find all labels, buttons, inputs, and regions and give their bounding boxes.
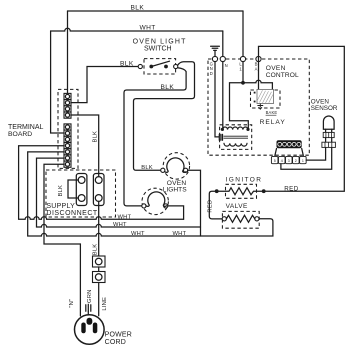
wire L1 jog to transformer primary right — [230, 83, 249, 128]
fuse block F1 — [76, 174, 87, 206]
terminal GND — [212, 56, 217, 61]
svg-text:WHT: WHT — [113, 222, 127, 228]
svg-text:DISCONNECT: DISCONNECT — [46, 210, 98, 217]
svg-text:5: 5 — [274, 159, 276, 163]
wire ignitor junction to valve (RED) — [209, 191, 222, 219]
terminal L1 — [240, 56, 245, 61]
oven control dashed box — [208, 59, 309, 155]
ignitor dashed box — [226, 184, 257, 198]
wire N to transformer primary — [222, 62, 224, 128]
wire WHT top bus with hop over BLK — [51, 28, 223, 133]
terminal board TB dashed box — [58, 89, 78, 168]
fuse block F2 — [93, 174, 104, 206]
svg-text:BLK: BLK — [120, 60, 134, 67]
wire switch feed from terminal board — [71, 67, 138, 103]
svg-text:1: 1 — [302, 159, 304, 163]
ignitor resistor element — [217, 188, 264, 195]
svg-text:A: A — [255, 67, 258, 72]
transformer primary winding — [222, 127, 248, 130]
top lamp filament — [165, 158, 186, 172]
svg-text:SENSOR: SENSOR — [311, 105, 338, 112]
svg-text:BAKE: BAKE — [266, 110, 278, 115]
svg-text:LIGHTS: LIGHTS — [163, 186, 187, 193]
svg-text:TERMINAL: TERMINAL — [8, 124, 44, 131]
svg-text:D: D — [210, 71, 213, 76]
wire WHT return 2: terminal 6 to lamp junction, hops 2 verticals — [37, 158, 201, 227]
wire L1 drop to terminal — [242, 11, 244, 56]
svg-text:2: 2 — [295, 159, 297, 163]
line connector block 2 — [93, 272, 106, 283]
wire BLK vertical drop to terminal board — [67, 11, 69, 93]
wire BA to bake relay coil — [258, 62, 260, 90]
wire BLK top bus (L1 feed) — [68, 10, 244, 12]
switch S1 left contact — [138, 64, 142, 68]
svg-text:RELAY: RELAY — [260, 119, 286, 126]
valve resistor element — [226, 215, 254, 222]
svg-text:4: 4 — [281, 159, 283, 163]
wire WHT return 3: terminal 5 to valve, hops 2 verticals — [28, 152, 273, 236]
wire terminal board to BLK drop (power line) — [71, 115, 99, 177]
GRN ground mark — [86, 304, 91, 311]
wire LINE to power cord — [98, 283, 100, 316]
svg-text:WHT: WHT — [173, 231, 187, 237]
terminal BA — [256, 56, 261, 61]
svg-text:BOARD: BOARD — [8, 131, 32, 138]
transformer core — [224, 136, 249, 138]
switch S1 poles and blade — [149, 65, 153, 69]
svg-text:BLK: BLK — [161, 84, 175, 91]
transformer primary dots — [221, 128, 224, 131]
transformer laminations — [219, 134, 222, 140]
oven sensor leads upper — [326, 129, 332, 132]
svg-text:BLK: BLK — [131, 5, 145, 12]
plug connector P1 numbered strip — [271, 156, 306, 163]
svg-text:POWER: POWER — [105, 331, 132, 338]
valve right terminal — [255, 217, 259, 221]
ignitor junction dot left — [215, 189, 219, 193]
wire N: terminal 7 to power cord — [44, 164, 80, 316]
oven sensor bulb — [323, 116, 334, 129]
svg-text:CONTROL: CONTROL — [266, 72, 299, 79]
junction dot L1 — [241, 81, 245, 85]
oven sensor connector band 1 — [323, 132, 334, 137]
wire N drop to terminal — [222, 31, 224, 56]
wire plug to sensor right lead — [281, 147, 332, 169]
line connector block 1 — [93, 256, 106, 267]
terminal board lower strip (7 terminals) — [64, 124, 71, 167]
oven sensor connector band 2 — [322, 142, 336, 147]
bake relay armature symbol — [257, 104, 263, 110]
svg-text:3: 3 — [288, 159, 290, 163]
wire switch branch A to top oven light — [134, 62, 195, 171]
ground symbol at GND terminal — [211, 46, 220, 56]
svg-text:OVEN: OVEN — [266, 65, 286, 72]
svg-text:BLK: BLK — [93, 244, 99, 256]
supply disconnect dashed box — [46, 170, 116, 217]
oven lights: top lamp dashed circle — [163, 153, 189, 179]
power cord right prong — [93, 323, 98, 334]
svg-text:WHT: WHT — [118, 214, 132, 220]
wire plug to sensor left lead — [306, 147, 325, 160]
svg-text:CORD: CORD — [105, 339, 126, 346]
wire BLK jumper loop on F1 — [68, 180, 78, 198]
svg-text:BLK: BLK — [141, 165, 153, 171]
svg-text:SWITCH: SWITCH — [144, 45, 172, 52]
top lamp terminals — [161, 168, 165, 172]
power cord ground pin — [87, 318, 93, 325]
wire GRN to power cord — [87, 311, 89, 315]
switch S1 dashed box — [144, 59, 176, 74]
svg-text:N: N — [225, 63, 228, 68]
wire GND to transformer core — [215, 62, 219, 137]
svg-text:"N": "N" — [69, 299, 75, 308]
wire L1 to bake relay coil with hop over BA — [243, 80, 272, 89]
switch S1 right contact — [174, 64, 178, 68]
svg-text:WHT: WHT — [140, 25, 156, 32]
wire top lamp to junction — [188, 170, 201, 236]
bake relay outer dashed box — [251, 90, 281, 108]
svg-text:BLK: BLK — [58, 185, 64, 197]
bottom lamp filament — [146, 192, 167, 206]
svg-text:WHT: WHT — [131, 231, 145, 237]
svg-text:LINE: LINE — [102, 297, 108, 311]
svg-text:GRN: GRN — [87, 290, 93, 303]
bake relay coil box with hatch — [257, 90, 274, 104]
wire between connectors — [98, 267, 100, 272]
oven lights: bottom lamp dashed circle — [142, 188, 168, 214]
ignitor junction dot right — [262, 189, 266, 193]
power cord plug body — [75, 315, 105, 345]
terminal N — [220, 56, 225, 61]
oven sensor leads middle — [326, 138, 332, 143]
transformer secondary winding — [224, 143, 247, 146]
wire bottom lamp to WHT return — [168, 206, 184, 219]
power cord left prong — [81, 323, 85, 334]
valve left terminal — [222, 217, 226, 221]
svg-text:IGNITOR: IGNITOR — [226, 176, 263, 183]
wire WHT return 1: terminal 4 to bottom lamp, hops 4 verticals — [19, 146, 184, 220]
terminal board upper strip (4 terminals) — [64, 93, 71, 118]
wire F2 to line connector — [98, 201, 100, 256]
svg-text:VALVE: VALVE — [226, 203, 248, 210]
relay contact block (black connector) — [275, 140, 303, 155]
svg-text:BLK: BLK — [92, 131, 98, 143]
valve dashed box — [222, 211, 259, 228]
wire BA loop to ignitor (RED) — [259, 46, 345, 191]
wire L1 to junction — [242, 62, 244, 83]
svg-text:RED: RED — [207, 200, 213, 213]
bottom lamp terminals — [142, 204, 146, 208]
bake relay terminal marks — [254, 92, 256, 94]
wire switch branch B (BLK) to bottom oven light — [124, 68, 186, 206]
svg-text:SUPPLY: SUPPLY — [46, 203, 75, 210]
transformer T1 dashed box — [220, 125, 252, 150]
svg-text:RED: RED — [284, 185, 298, 192]
